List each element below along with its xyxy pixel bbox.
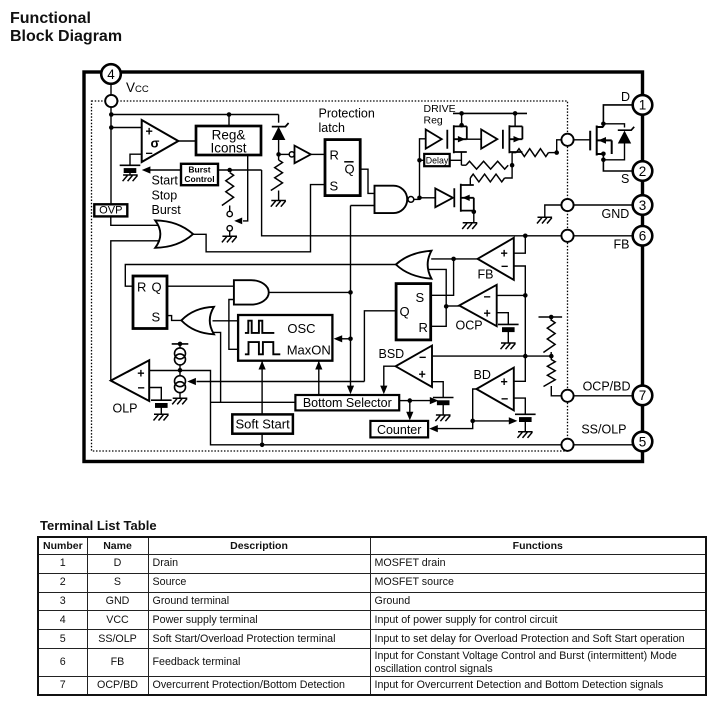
wire NAND input2 vertical bbox=[350, 206, 352, 390]
svg-text:Burst: Burst bbox=[188, 165, 210, 175]
wire M2 source down bbox=[511, 153, 513, 166]
arrow into OSC right bbox=[341, 338, 351, 340]
wire Reg&Iconst top feed bbox=[228, 115, 230, 127]
wire R5 lead left bbox=[512, 152, 516, 154]
svg-text:Soft Start: Soft Start bbox=[235, 417, 290, 432]
wire bottom selector feed bbox=[211, 401, 296, 403]
node DRIVE on dashed boundary bbox=[561, 134, 573, 146]
wire OLP minus bbox=[149, 388, 161, 401]
wire C3 ground bbox=[507, 332, 509, 343]
wire GND node to pin3 bbox=[574, 204, 633, 206]
svg-text:Protection: Protection bbox=[319, 107, 375, 121]
svg-text:R: R bbox=[137, 279, 146, 294]
svg-text:S: S bbox=[416, 290, 425, 305]
wire GND stub to ground bbox=[545, 205, 562, 217]
svg-text:OSC: OSC bbox=[287, 321, 315, 336]
transistor M2 bbox=[503, 125, 523, 153]
wire OCP plus input bbox=[497, 313, 509, 325]
pin 5 SS/OLP bbox=[633, 432, 653, 452]
block OSC MaxON bbox=[238, 315, 332, 361]
junction dot BD plus tap bbox=[523, 354, 528, 359]
ground below C1 bbox=[123, 175, 138, 181]
wire BSD output bbox=[384, 366, 396, 389]
svg-text:SS/OLP: SS/OLP bbox=[581, 422, 626, 436]
wire latch Q output bbox=[364, 311, 396, 382]
wire Q to AND gate bbox=[167, 285, 234, 287]
junction dot Q1 source upper bbox=[601, 152, 606, 157]
block Reg&Iconst bbox=[196, 126, 261, 155]
junction dot Q1 drain bbox=[601, 122, 606, 127]
block Counter bbox=[370, 421, 428, 438]
wire OLP output up to OR input2 bbox=[111, 241, 159, 381]
wire SW1 to ground bbox=[229, 231, 231, 236]
svg-text:Q: Q bbox=[152, 279, 162, 294]
wire G3 input2 bbox=[429, 269, 447, 306]
svg-text:FB: FB bbox=[478, 268, 494, 282]
wire body diode top bbox=[603, 124, 624, 128]
block Soft Start bbox=[232, 414, 293, 433]
label Qbar protection latch bbox=[344, 162, 354, 177]
node GND on dashed boundary bbox=[561, 199, 573, 211]
wire R7 leads bbox=[550, 356, 552, 360]
junction dot R5 right bbox=[554, 150, 559, 155]
svg-text:+: + bbox=[501, 375, 508, 389]
svg-text:Start: Start bbox=[152, 174, 179, 188]
resistor R5 drive bbox=[516, 149, 548, 157]
junction dot resistor mid bbox=[549, 354, 554, 359]
and gate G4 bbox=[234, 280, 269, 304]
wire comparator plus input bbox=[111, 127, 141, 129]
pin 2 Source bbox=[633, 161, 653, 181]
pin 3 GND bbox=[633, 195, 653, 215]
svg-text:R: R bbox=[419, 320, 428, 335]
wire Vcc top rail bbox=[111, 114, 278, 116]
arrow BSD to Bottom Selector bbox=[380, 386, 387, 395]
arrow into Bottom Selector left bbox=[347, 386, 354, 395]
svg-text:Reg: Reg bbox=[424, 115, 443, 127]
block latch RQ-S bbox=[133, 276, 167, 329]
ground below C2 bbox=[154, 414, 169, 420]
ground below SW1 bbox=[222, 236, 237, 242]
resistor R4 drive bbox=[470, 174, 504, 182]
wire OSC to Bottom Selector bbox=[318, 361, 320, 395]
svg-text:OCP: OCP bbox=[456, 319, 483, 333]
svg-text:+: + bbox=[137, 367, 144, 381]
ground GND pin bbox=[537, 217, 552, 223]
op-amp BSD comparator bbox=[396, 346, 432, 387]
svg-text:FB: FB bbox=[614, 238, 630, 252]
wire BD minus input bbox=[514, 398, 526, 414]
transistor M1 bbox=[447, 125, 467, 153]
resistor R7 bbox=[544, 360, 556, 387]
svg-text:Delay: Delay bbox=[426, 155, 449, 165]
svg-text:Burst: Burst bbox=[152, 203, 182, 217]
capacitor C4 BSD bbox=[433, 398, 454, 406]
wire G5 input1 from OSC bbox=[213, 320, 239, 322]
wire R5 to gate node bbox=[549, 152, 557, 154]
wire C1 to ground bbox=[129, 173, 131, 175]
svg-text:5: 5 bbox=[639, 434, 647, 449]
wire pin4 to Vcc node bbox=[110, 72, 112, 204]
ground below I2 bbox=[172, 398, 187, 404]
svg-text:Iconst: Iconst bbox=[210, 141, 246, 156]
junction dot burst resistor bbox=[227, 168, 232, 173]
outer boundary box of IC block diagram bbox=[84, 72, 643, 462]
wire zener to resistor bbox=[278, 140, 280, 160]
wire to inverter bubble bbox=[279, 153, 290, 155]
wire FB output bbox=[431, 258, 477, 260]
wire drive top rail bbox=[453, 112, 527, 114]
bar resistor top stub bbox=[539, 316, 563, 318]
wire OCP out to latch R bbox=[431, 306, 447, 326]
junction dot NAND output bbox=[417, 196, 422, 201]
wire Q1 drain to pin1 bbox=[603, 105, 632, 127]
wire Bottom Selector output bbox=[399, 400, 410, 402]
junction dot Vcc rail upper bbox=[109, 112, 114, 117]
or-gate G3 mirrored bbox=[396, 251, 432, 279]
wire R6 leads bbox=[550, 317, 552, 321]
wire AND input2 from MaxON bbox=[229, 300, 238, 350]
wire soft node bbox=[180, 371, 561, 445]
resistor R3 drive bbox=[466, 161, 508, 169]
junction dot OSC arrow bbox=[348, 337, 353, 342]
wire Soft Start to OSC bbox=[261, 361, 263, 414]
pin 7 OCP/BD bbox=[633, 386, 653, 406]
wire U2 to latch R bbox=[311, 153, 325, 155]
junction dot FB output bbox=[451, 257, 456, 262]
wire NAND input2 bbox=[351, 205, 375, 207]
svg-text:Q: Q bbox=[345, 162, 355, 177]
svg-text:OVP: OVP bbox=[99, 205, 122, 217]
wire delay tap bbox=[420, 159, 425, 161]
op-amp OLP bbox=[111, 360, 149, 401]
wire FB vertical net bbox=[524, 295, 526, 356]
wire body diode bottom bbox=[603, 144, 624, 160]
pin 4 VCC bbox=[101, 64, 121, 84]
svg-text:+: + bbox=[501, 247, 508, 261]
wire node to pin7 bbox=[574, 395, 633, 397]
svg-text:+: + bbox=[484, 307, 491, 321]
svg-text:7: 7 bbox=[639, 388, 647, 403]
ground below C4 bbox=[435, 415, 450, 421]
op-amp U1 startup comparator bbox=[142, 120, 179, 162]
svg-text:6: 6 bbox=[639, 229, 647, 244]
junction dot FB plus tap bbox=[523, 234, 528, 239]
wire BD to Counter bbox=[438, 421, 473, 429]
ground below M3 bbox=[462, 223, 477, 229]
arrow Burst Control to C1 node bbox=[147, 169, 181, 171]
wire OVP to OR input1 bbox=[111, 216, 159, 225]
ground below C5 bbox=[518, 432, 533, 438]
page title bbox=[10, 10, 122, 47]
or-gate G5 mirrored bbox=[181, 307, 214, 335]
arrow BS to Counter bbox=[409, 401, 411, 415]
svg-text:DRIVE: DRIVE bbox=[424, 103, 456, 115]
svg-text:VCC: VCC bbox=[126, 80, 149, 95]
wire latch Q to I2 arrow bbox=[197, 381, 365, 383]
junction dot rail M2 bbox=[513, 111, 518, 116]
junction dot above Reg&Iconst bbox=[227, 112, 232, 117]
svg-text:GND: GND bbox=[602, 207, 630, 221]
zener diode D1 bbox=[272, 123, 289, 140]
wire M1 source bbox=[460, 152, 462, 165]
wire C4 ground bbox=[442, 405, 444, 415]
junction dot zener-inverter bbox=[276, 152, 281, 157]
wire FB minus input bbox=[514, 266, 526, 295]
wire M1 drain bbox=[461, 113, 463, 126]
svg-text:2: 2 bbox=[639, 164, 647, 179]
svg-text:−: − bbox=[146, 147, 153, 161]
node SSOLP on dashed boundary bbox=[561, 439, 573, 451]
node OCPBD on dashed boundary bbox=[561, 390, 573, 402]
wire FB net long run bbox=[262, 170, 562, 236]
wire Burst Control to FB line bbox=[218, 169, 262, 171]
junction dot BD output bbox=[470, 419, 475, 424]
wire G3 output to latch R bbox=[125, 265, 396, 287]
wire Q1 source to pin2 bbox=[603, 154, 632, 171]
junction dot OCP output bbox=[444, 304, 449, 309]
wire node to power gate bbox=[574, 139, 591, 141]
wire CS bar down bbox=[179, 344, 181, 348]
capacitor C5 BD bbox=[515, 414, 536, 422]
nand gate G2 bbox=[375, 186, 408, 213]
junction dot R3 right bbox=[510, 163, 515, 168]
wire I2 to ground bbox=[179, 393, 181, 398]
wire U1 minus input bbox=[130, 154, 142, 165]
block latch S-Q-R bbox=[396, 284, 431, 340]
svg-text:BD: BD bbox=[474, 368, 491, 382]
wire zener top feed bbox=[278, 115, 280, 123]
svg-text:3: 3 bbox=[639, 198, 647, 213]
svg-text:−: − bbox=[138, 381, 145, 395]
svg-text:−: − bbox=[419, 351, 426, 365]
wire M1 to buffer U4 bbox=[467, 138, 481, 140]
arrow into OSC bottom left bbox=[259, 361, 266, 370]
wire Soft Start bottom bbox=[261, 434, 263, 445]
wire M1 source to R3 bbox=[461, 164, 466, 166]
junction dot resistor top bbox=[549, 315, 554, 320]
power MOSFET Q1 bbox=[590, 126, 612, 156]
inverter U2 bbox=[295, 146, 311, 164]
svg-text:4: 4 bbox=[107, 67, 115, 82]
arrow into OSC bottom right bbox=[315, 361, 322, 370]
current source I2 bbox=[175, 376, 186, 393]
junction dot CS bar bbox=[178, 342, 183, 347]
svg-text:S: S bbox=[330, 178, 339, 193]
wire gate node to DRIVE node bbox=[557, 140, 562, 153]
block OVP bbox=[94, 204, 127, 216]
junction dot AND output bbox=[348, 290, 353, 295]
wire Qbar to NAND bbox=[360, 169, 374, 193]
wire NAND out up to buffers bbox=[420, 139, 426, 198]
svg-text:Bottom Selector: Bottom Selector bbox=[303, 396, 392, 410]
wire FB node to pin6 bbox=[574, 235, 633, 237]
node FB on dashed boundary bbox=[561, 230, 573, 242]
capacitor C2 OLP bbox=[151, 400, 172, 408]
svg-text:R: R bbox=[330, 147, 339, 162]
svg-text:−: − bbox=[501, 392, 508, 406]
wire C2 ground bbox=[160, 408, 162, 415]
wire AND output bbox=[269, 291, 351, 293]
junction dot BS output bbox=[408, 398, 413, 403]
svg-text:BSD: BSD bbox=[379, 347, 405, 361]
wire BSD minus input bbox=[432, 355, 551, 357]
svg-text:Q: Q bbox=[400, 304, 410, 319]
junction dot M3 source bbox=[472, 210, 477, 215]
resistor R2 burst bbox=[222, 173, 234, 206]
wire R1 to ground bbox=[278, 191, 280, 201]
wire M3 source to ground bbox=[473, 211, 475, 223]
svg-text:Counter: Counter bbox=[377, 423, 421, 437]
wire R4 lead left bbox=[469, 178, 471, 185]
dashed internal chip boundary bbox=[92, 101, 568, 451]
terminal list table bbox=[37, 536, 707, 696]
block protection latch bbox=[325, 140, 360, 196]
bar current source supply bbox=[172, 343, 189, 345]
wire G5 input2 bbox=[214, 332, 221, 402]
svg-text:Stop: Stop bbox=[152, 189, 178, 203]
current source I1 bbox=[175, 348, 186, 365]
wire BD plus input bbox=[514, 356, 526, 381]
op-amp FB comparator bbox=[478, 238, 514, 280]
junction dot M1 drain bbox=[459, 123, 464, 128]
arrow BS to capacitor C4 bbox=[410, 400, 431, 402]
waveform glyph MaxON bbox=[245, 342, 280, 354]
svg-text:D: D bbox=[621, 90, 630, 104]
svg-text:S: S bbox=[621, 172, 629, 186]
buffer U4 bbox=[481, 130, 497, 149]
wire OLP plus bbox=[149, 370, 180, 372]
node Vcc on dashed boundary bbox=[105, 95, 117, 107]
block Burst Control bbox=[181, 164, 218, 185]
wire node to pin5 bbox=[574, 444, 634, 446]
op-amp BD comparator bbox=[476, 368, 513, 411]
wire FB plus input bbox=[514, 236, 526, 253]
inverter U2 bubble bbox=[289, 152, 294, 157]
waveform glyph OSC bbox=[245, 321, 274, 333]
junction dot CS middle bbox=[178, 368, 183, 373]
buffer U3 bbox=[426, 130, 442, 149]
wire FB out to latch S bbox=[431, 259, 454, 295]
junction dot OCP minus bbox=[523, 293, 528, 298]
svg-text:MaxON: MaxON bbox=[287, 342, 331, 357]
wire R4 lead right bbox=[505, 165, 512, 178]
wire BSD plus input bbox=[432, 382, 443, 398]
switch SW1 contact top bbox=[227, 211, 232, 216]
svg-text:−: − bbox=[484, 290, 491, 304]
junction dot rail M1 bbox=[459, 111, 464, 116]
ground below C3 bbox=[501, 343, 516, 349]
or-gate G1 bbox=[155, 220, 193, 247]
wire G5 output to latch S bbox=[167, 316, 181, 321]
arrow BD to capacitor C5 bbox=[473, 420, 510, 422]
svg-text:S: S bbox=[152, 309, 161, 324]
transistor M3 bbox=[454, 184, 474, 212]
op-amp OCP comparator bbox=[459, 285, 497, 326]
wire C5 ground bbox=[524, 422, 526, 432]
wire BD output bbox=[473, 389, 477, 421]
svg-text:1: 1 bbox=[639, 98, 647, 113]
svg-text:+: + bbox=[419, 368, 426, 382]
wire U1 output bbox=[178, 140, 196, 142]
wire M2 drain bbox=[514, 113, 516, 126]
body zener diode D2 bbox=[618, 127, 634, 144]
table title bbox=[40, 518, 157, 533]
svg-text:OLP: OLP bbox=[113, 402, 138, 416]
block Bottom Selector bbox=[295, 395, 399, 410]
wire NAND to buffer U5 bbox=[420, 197, 436, 199]
ground below R1 bbox=[271, 201, 286, 207]
block Delay bbox=[424, 154, 450, 166]
junction dot delay input bbox=[417, 158, 422, 163]
svg-text:−: − bbox=[501, 260, 508, 274]
switch SW1 contact bottom bbox=[227, 226, 232, 231]
svg-text:OCP/BD: OCP/BD bbox=[583, 379, 631, 393]
wire OCP minus input bbox=[497, 294, 526, 296]
junction dot Vcc comparator feed bbox=[109, 125, 114, 130]
wire CS middle bbox=[179, 365, 181, 376]
svg-text:Control: Control bbox=[184, 174, 214, 184]
svg-text:latch: latch bbox=[319, 121, 345, 135]
capacitor C3 OCP bbox=[498, 324, 519, 332]
pin 6 FB bbox=[633, 226, 653, 246]
wire G1 output to latch S bbox=[193, 185, 325, 252]
wire Reg&Iconst control to SW1 bbox=[243, 155, 248, 221]
wire NAND output bbox=[414, 198, 420, 200]
junction dot Q1 source lower bbox=[601, 158, 606, 163]
wire R2 to switch bbox=[229, 206, 231, 212]
resistor R6 bbox=[543, 320, 555, 352]
wire Delay output bbox=[450, 159, 462, 161]
wire OCP output bbox=[446, 305, 459, 307]
buffer U5 bbox=[435, 188, 453, 207]
pin 1 Drain bbox=[633, 95, 653, 115]
junction dot soft start bbox=[260, 443, 265, 448]
resistor R1 below zener bbox=[271, 160, 283, 190]
capacitor C1 at U1 minus bbox=[120, 165, 141, 173]
